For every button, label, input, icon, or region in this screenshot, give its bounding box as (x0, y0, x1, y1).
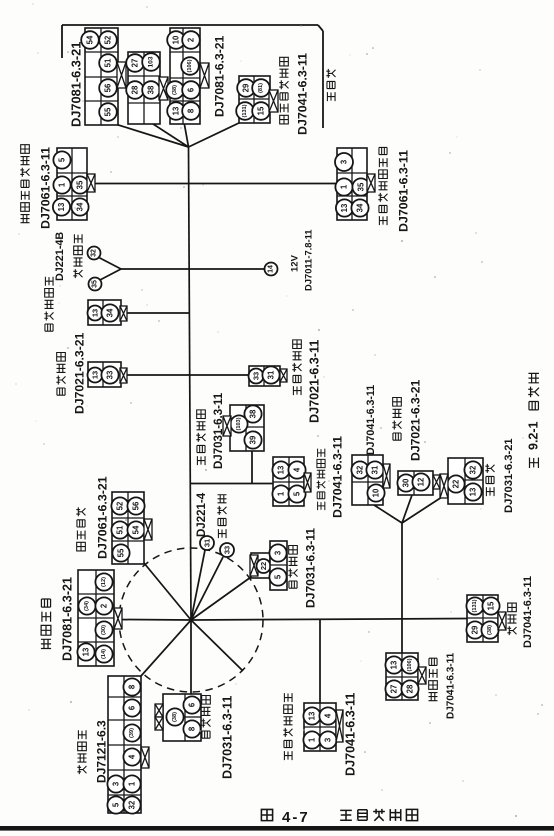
connector X3 pins (167, 31, 185, 49)
svg-text:DJ7031-6.3-11: DJ7031-6.3-11 (221, 696, 235, 779)
connector horn-relay body (88, 362, 121, 387)
wire DJ7061 left-right (95, 183, 337, 185)
wire hub spoke down (190, 620, 192, 694)
svg-text:31: 31 (203, 539, 212, 547)
label to-electric-control (326, 69, 335, 101)
svg-text:6: 6 (187, 87, 196, 92)
svg-text:12V: 12V (289, 254, 300, 272)
svg-text:4: 4 (324, 713, 333, 718)
svg-text:34: 34 (106, 308, 115, 317)
label cluster-7061 name (76, 507, 85, 551)
svg-text:DJ221-4: DJ221-4 (196, 492, 208, 537)
wire hub spoke left (118, 619, 191, 622)
wire hub to circle 33 (191, 557, 223, 620)
bottom rule (0, 826, 554, 831)
connector turn-switch mate symbol (250, 555, 258, 576)
svg-text:(38): (38) (487, 625, 493, 635)
connector lift-switch pins (385, 656, 402, 673)
svg-text:51: 51 (104, 58, 113, 67)
wire fan to connector X3 (184, 122, 189, 147)
connector handbrake mate symbol (223, 416, 231, 436)
svg-text:DJ7041-6.3-11: DJ7041-6.3-11 (446, 652, 457, 719)
wire brake to 12V node (121, 268, 265, 270)
label cluster-7121 name (77, 730, 86, 774)
svg-text:DJ7031-6.3-21: DJ7031-6.3-21 (503, 438, 515, 513)
connector X1 mate symbol (117, 62, 126, 88)
label rear-roofguard-left name (20, 145, 29, 223)
svg-text:13: 13 (91, 371, 100, 379)
connector X4 mate symbol (269, 90, 278, 112)
connector handbrake pins (244, 405, 261, 422)
label horn switch name (217, 495, 226, 538)
svg-text:DJ7081-6.3-21: DJ7081-6.3-21 (212, 35, 226, 117)
svg-text:15: 15 (257, 106, 266, 115)
connector X3 body (170, 28, 200, 124)
svg-text:32: 32 (91, 249, 98, 257)
svg-text:DJ7041-6.3-11: DJ7041-6.3-11 (331, 436, 345, 518)
svg-text:(38): (38) (172, 712, 178, 722)
svg-text:1: 1 (308, 737, 317, 742)
connector rear-roofguard-left pins (53, 151, 70, 168)
connector rear-roofguard-left mate symbol (87, 174, 95, 192)
label lift switch name (429, 658, 438, 700)
svg-text:55: 55 (104, 107, 113, 116)
svg-text:DJ7061-6.3-11: DJ7061-6.3-11 (39, 147, 53, 229)
svg-text:32: 32 (128, 800, 137, 809)
connector fusebox body (398, 471, 433, 495)
node 33 (220, 543, 234, 557)
svg-text:6: 6 (188, 702, 197, 707)
svg-text:8: 8 (128, 684, 137, 689)
label flasher name (485, 464, 494, 496)
caption right edge fig 9.2-1 (530, 457, 539, 468)
svg-text:10: 10 (372, 488, 381, 497)
svg-text:27: 27 (390, 685, 399, 694)
connector cluster-7081 pins (95, 573, 112, 590)
connector turn-switch pins right (269, 544, 286, 561)
svg-text:(38): (38) (172, 85, 178, 95)
svg-text:DJ7021-6.3-11: DJ7021-6.3-11 (308, 340, 322, 423)
svg-text:1: 1 (128, 781, 137, 786)
svg-text:22: 22 (259, 562, 268, 570)
border frame right segment (322, 31, 324, 128)
connector accelerator body (467, 595, 498, 642)
wire vertical to lift switch (401, 523, 403, 653)
svg-text:52: 52 (104, 35, 113, 44)
connector cluster-7061 mate symbol (144, 519, 152, 540)
border frame top (62, 24, 318, 26)
wire buzzer to spine (126, 312, 189, 314)
svg-text:1: 1 (58, 182, 67, 187)
label rear-roofguard-right name (378, 147, 387, 225)
svg-text:4-7: 4-7 (282, 809, 310, 826)
svg-text:DJ7041-6.3-11: DJ7041-6.3-11 (344, 693, 358, 776)
svg-text:9.2-1: 9.2-1 (527, 421, 541, 450)
connector fusebox pins (397, 474, 414, 491)
connector rear-roofguard-right body (337, 148, 367, 220)
svg-text:35: 35 (92, 280, 99, 288)
svg-text:3: 3 (324, 737, 333, 742)
svg-text:13: 13 (57, 202, 66, 211)
label accelerator name (507, 603, 516, 635)
wire handbrake drop (251, 451, 253, 484)
wire hub spoke down-right (191, 620, 243, 671)
caption figure 4-7 (261, 809, 272, 820)
svg-text:4: 4 (128, 754, 137, 759)
label fusebox name (392, 397, 401, 440)
connector reverse-buzzer pins (88, 306, 103, 321)
svg-text:33: 33 (106, 370, 115, 379)
connector cluster-7061 pins (111, 497, 128, 514)
connector lift-switch body (386, 653, 418, 700)
connector roofguard-bottom mate symbol (336, 710, 343, 742)
connector flasher body (448, 458, 483, 504)
connector X4 pins (237, 79, 255, 97)
wire hub spoke up-left (144, 563, 191, 620)
svg-text:(14): (14) (101, 649, 107, 659)
label reverse buzzer name (44, 277, 53, 332)
svg-text:3: 3 (274, 550, 283, 555)
svg-text:4: 4 (293, 467, 302, 472)
connector groupA mate symbol (383, 464, 390, 488)
connector X1 body (85, 28, 118, 125)
svg-text:38: 38 (147, 85, 156, 94)
svg-text:5: 5 (58, 157, 67, 162)
label roof-guard harness top (279, 57, 288, 124)
connector X2 pins (126, 54, 144, 72)
connector cluster-7121 mate symbol (141, 747, 149, 768)
svg-text:(103): (103) (236, 417, 242, 430)
connector roofguard-bottom body (304, 703, 336, 751)
label handbrake switch name (196, 410, 205, 465)
connector rear-roofguard-right pins (335, 153, 353, 171)
connector direction body (163, 694, 201, 741)
svg-text:DJ7011-7.8-11: DJ7011-7.8-11 (302, 229, 313, 291)
svg-text:(81): (81) (258, 83, 264, 93)
connector cluster-7121 pins (123, 678, 140, 695)
label foot horn switch name (292, 340, 301, 395)
svg-text:2: 2 (100, 603, 109, 608)
svg-text:8: 8 (188, 726, 197, 731)
svg-text:2: 2 (187, 37, 196, 42)
connector roofguard-bottom pins (303, 707, 320, 724)
connector rear-roofguard-left body (57, 148, 87, 220)
svg-text:32: 32 (469, 465, 478, 474)
svg-text:103: 103 (148, 56, 155, 67)
connector groupA pins (351, 461, 368, 478)
svg-text:13: 13 (172, 106, 181, 115)
svg-text:5: 5 (293, 491, 302, 496)
hub dashed circle (119, 548, 263, 692)
label horn relay name (56, 352, 65, 395)
svg-text:DJ7041-6.3-11: DJ7041-6.3-11 (296, 53, 310, 135)
label cluster-7081 name (41, 599, 51, 648)
svg-text:22: 22 (452, 479, 461, 488)
svg-text:DJ7021-6.3-21: DJ7021-6.3-21 (72, 332, 86, 414)
svg-text:DJ7031-6.3-11: DJ7031-6.3-11 (213, 392, 225, 469)
wire brake switch 35 (98, 269, 121, 281)
svg-text:55: 55 (117, 548, 126, 557)
svg-text:33: 33 (223, 546, 232, 554)
wire fan to connector X4 (189, 122, 242, 147)
connector turn-switch left cell (251, 553, 270, 578)
wire fusebox group A (374, 505, 402, 523)
connector rear-roofguard-right mate symbol (367, 174, 375, 192)
svg-text:13: 13 (469, 487, 478, 496)
node 32 (88, 247, 101, 260)
svg-text:38: 38 (249, 409, 258, 418)
svg-text:13: 13 (340, 203, 349, 212)
wire hub to circle 31 (191, 550, 205, 620)
node 35 (89, 278, 102, 291)
svg-text:DJ7081-6.3-21: DJ7081-6.3-21 (69, 42, 84, 127)
svg-text:54: 54 (132, 525, 141, 534)
connector reverse-buzzer mate symbol (120, 306, 127, 321)
svg-text:DJ7031-6.3-11: DJ7031-6.3-11 (303, 528, 317, 608)
connector handbrake body (230, 405, 264, 451)
svg-text:(30): (30) (101, 625, 107, 635)
svg-text:31: 31 (371, 465, 380, 474)
svg-text:13: 13 (82, 647, 91, 656)
connector foot-horn body (249, 366, 280, 386)
svg-text:13: 13 (277, 465, 286, 474)
connector X3 mate symbol (200, 63, 209, 88)
wire horn relay to foot horn switch (126, 374, 250, 376)
svg-text:56: 56 (104, 83, 113, 92)
wire hub right spoke (191, 619, 467, 621)
connector accelerator pins (466, 597, 483, 614)
connector groupA body (352, 455, 383, 505)
svg-text:DJ7041-6.3-11: DJ7041-6.3-11 (522, 576, 534, 648)
label brake switch name (73, 234, 82, 278)
connector roofguard-mid body (273, 457, 304, 506)
svg-text:10: 10 (172, 35, 181, 44)
connector X1 pins (81, 31, 99, 49)
connector direction mate symbol (155, 704, 163, 717)
svg-text:29: 29 (471, 625, 480, 634)
connector roofguard-mid mate symbol (304, 473, 311, 492)
svg-text:(106): (106) (407, 658, 413, 671)
svg-text:5: 5 (274, 574, 283, 579)
svg-text:35: 35 (357, 182, 366, 191)
svg-text:(39): (39) (129, 728, 135, 738)
svg-text:51: 51 (116, 525, 125, 534)
svg-text:1: 1 (277, 491, 286, 496)
connector cluster-7081 body (78, 570, 114, 666)
wire hub spoke down-left (141, 620, 191, 676)
svg-text:27: 27 (131, 59, 140, 68)
node 31 (200, 536, 214, 550)
svg-text:(106): (106) (187, 59, 193, 72)
svg-text:(34): (34) (84, 601, 90, 611)
svg-text:(12): (12) (101, 577, 107, 587)
svg-text:6: 6 (128, 705, 137, 710)
connector direction pins (166, 708, 183, 725)
svg-text:DJ7041-6.3-11: DJ7041-6.3-11 (365, 385, 377, 455)
svg-text:DJ7021-6.3-21: DJ7021-6.3-21 (408, 379, 422, 461)
wire hub spoke up-right (191, 577, 251, 620)
connector horn-relay mate symbol (120, 368, 127, 383)
svg-text:15: 15 (487, 601, 496, 610)
svg-text:28: 28 (406, 684, 415, 693)
svg-text:31: 31 (267, 370, 276, 379)
svg-text:DJ7061-6.3-21: DJ7061-6.3-21 (96, 476, 110, 559)
label roofguard-bottom name (283, 693, 292, 760)
svg-text:35: 35 (76, 180, 85, 189)
svg-text:(131): (131) (472, 599, 478, 612)
svg-text:30: 30 (402, 478, 411, 487)
svg-text:28: 28 (131, 85, 140, 94)
wire fan to connector X1 (112, 123, 189, 147)
label turn switch name (288, 545, 297, 588)
svg-text:DJ221-4B: DJ221-4B (54, 232, 66, 281)
svg-text:8: 8 (187, 108, 196, 113)
svg-text:34: 34 (356, 203, 365, 212)
wire fan to connector X2 (150, 122, 189, 147)
connector reverse-buzzer body (88, 300, 121, 325)
wire drop to bottom roofguard (319, 620, 321, 704)
svg-text:34: 34 (76, 202, 85, 211)
svg-text:DJ7121-6.3: DJ7121-6.3 (94, 720, 108, 783)
svg-text:12: 12 (417, 477, 426, 486)
label roofguard-mid name (317, 449, 326, 511)
node 14 12V (265, 263, 278, 276)
svg-text:29: 29 (242, 83, 251, 92)
connector foot-horn pins (249, 369, 264, 384)
connector cluster-7121 body (108, 676, 141, 813)
svg-text:3: 3 (340, 159, 349, 164)
connector flasher mate symbol (440, 474, 448, 498)
svg-text:13: 13 (308, 711, 317, 720)
svg-text:1: 1 (340, 184, 349, 189)
connector foot-horn mate symbol (280, 369, 287, 382)
connector lift-switch mate symbol (418, 667, 426, 684)
wire fusebox group C (402, 495, 445, 523)
svg-text:14: 14 (268, 265, 275, 273)
wire brake switch 32 (96, 256, 121, 269)
svg-text:DJ7081-6.3-21: DJ7081-6.3-21 (61, 577, 75, 661)
svg-text:13: 13 (91, 309, 100, 317)
connector fusebox mate symbol (433, 475, 440, 489)
border frame left stub (61, 25, 63, 58)
svg-text:DJ7061-6.3-11: DJ7061-6.3-11 (397, 150, 411, 232)
connector flasher pins (447, 475, 464, 492)
wire spine to roofguard mid (190, 483, 274, 485)
connector X4 body (239, 76, 270, 123)
svg-text:13: 13 (390, 660, 399, 669)
connector turn-switch right body (270, 541, 287, 590)
connector accelerator mate symbol (498, 612, 506, 630)
wire spine vertical (189, 147, 192, 620)
connector X2 mate symbol (159, 77, 168, 100)
svg-text:3: 3 (112, 781, 121, 786)
connector X2 body (128, 52, 160, 124)
svg-text:5: 5 (112, 802, 121, 807)
connector cluster-7081 mate symbol (114, 608, 122, 629)
svg-text:32: 32 (356, 465, 365, 474)
connector roofguard-mid pins (272, 461, 289, 478)
connector cluster-7061 body (112, 492, 144, 564)
label direction switch name (201, 695, 210, 738)
svg-text:56: 56 (132, 501, 141, 510)
svg-text:39: 39 (249, 435, 258, 444)
connector turn-switch pin22 (257, 559, 271, 573)
svg-text:33: 33 (252, 372, 261, 380)
connector horn-relay pins (88, 368, 103, 383)
wire fusebox group B (402, 495, 412, 523)
scan speckle noise (180, 127, 181, 128)
svg-text:54: 54 (86, 35, 95, 44)
svg-text:52: 52 (116, 501, 125, 510)
svg-text:(131): (131) (242, 104, 248, 117)
